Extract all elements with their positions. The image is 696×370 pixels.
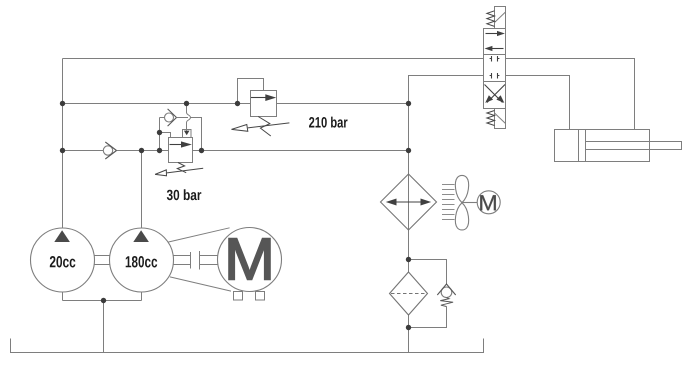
pilot line with crossover hop [187,104,191,131]
wire return line left of check valve [63,150,104,152]
wire filter outlet to tank [408,315,410,353]
node pump1 riser pressure line [60,101,65,106]
electric motor M1 [218,228,282,301]
check valve CV1 on return line [103,142,116,159]
node filter inlet [406,257,411,262]
pilot down arrow [184,131,190,136]
node 30bar left bottom [157,148,162,153]
fan motor letter M [480,195,496,210]
center position blocked port marks [490,56,500,62]
unloading valve RV2 30 bar [155,104,203,176]
wire check branch right [191,118,202,151]
spring 30bar [177,163,186,173]
wire pump case drains [63,292,142,353]
valve body 30bar [169,138,193,163]
return spring bottom [487,111,495,126]
wire top supply line left [63,58,484,60]
label 30 bar [167,189,202,200]
wire pump coupling shaft [95,256,110,265]
wire pump2 riser [141,151,143,229]
fan propeller [455,175,477,230]
wire tank bottom line [11,339,484,353]
cooler air fins [442,185,455,220]
node pump drain junction [101,298,106,303]
wire pressure line left of 210bar valve [63,103,251,105]
cooler HE1 [381,174,437,230]
pilot cap box [183,130,192,138]
node 30bar left loop [157,130,162,135]
node main vertical pressure [406,101,411,106]
wire return line right of 30bar valve [193,150,409,152]
label 20cc [50,256,76,268]
pilot check valve CV2 [165,113,174,122]
position b crossed arrows [485,85,506,103]
pump P1 20cc [31,228,95,292]
node pump2 riser junction [139,148,144,153]
wire return line check valve to 30bar valve [117,150,169,152]
wire check branch seat to hop [177,117,189,119]
return spring top [487,11,495,27]
wire valve port to main vertical drop [409,76,484,273]
label 210 bar [309,117,348,128]
wire left loop [160,118,171,151]
wire top line from valve to cylinder right port [506,59,635,130]
wire pressure line right of 210bar valve [277,103,409,105]
wire check branch left [160,117,165,119]
node 210bar pilot tap [235,101,240,106]
filter bypass check valve CV3 [409,260,456,328]
filter F1 [390,272,428,315]
wire bell housing lines [169,228,232,291]
fan motor M2 [477,191,500,214]
wire valve port to cylinder left port [506,76,570,130]
wire left vertical pump1 riser [62,59,64,229]
wire motor shaft with coupling [174,251,218,270]
node 30bar pilot tap [184,101,189,106]
node pump1 riser return line [60,148,65,153]
solenoid top [495,7,506,29]
cylinder CYL1 [555,130,682,162]
node filter outlet [406,325,411,330]
solenoid bottom [495,109,506,129]
directional valve DV1 4/3 solenoid [484,7,506,129]
relief valve RV1 210 bar [232,79,290,137]
node main vertical return [406,148,411,153]
node 30bar right branch [199,148,204,153]
label 180cc [126,256,158,268]
adjustment arrow 30bar [167,168,203,173]
pump P2 180cc [110,228,174,292]
position a parallel arrows [486,33,499,35]
motor letter M [229,239,270,280]
